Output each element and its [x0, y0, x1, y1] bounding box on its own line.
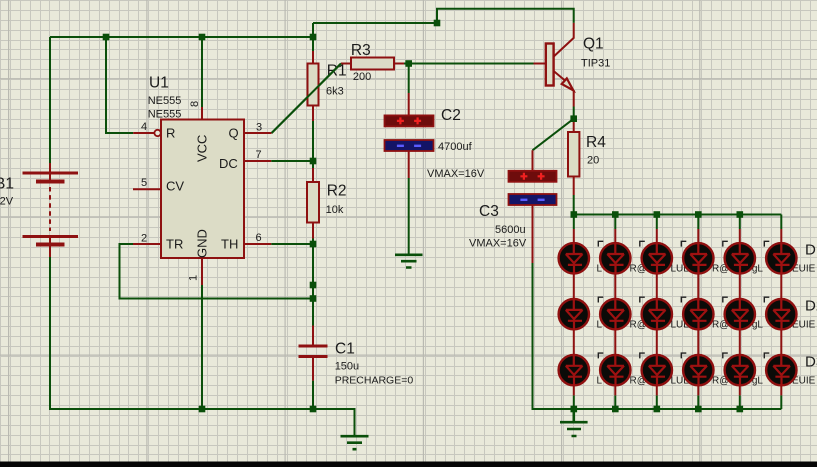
LED column lead	[614, 229, 616, 395]
svg-text:GND: GND	[195, 229, 210, 258]
pin 4	[133, 132, 154, 134]
label anchor mark	[764, 241, 769, 247]
svg-text:10k: 10k	[326, 204, 344, 216]
wire (crosses over R1)	[272, 64, 341, 134]
LED D4	[683, 243, 713, 274]
svg-text:4700uf: 4700uf	[438, 141, 473, 153]
junction	[570, 115, 577, 122]
LED D1	[559, 243, 589, 274]
wire	[49, 37, 51, 163]
svg-text:2: 2	[141, 233, 147, 245]
op-amp U1 (NE555 body)	[161, 120, 244, 259]
svg-text:R1: R1	[327, 63, 347, 80]
transistor Q1	[546, 44, 574, 91]
wire	[739, 395, 741, 409]
svg-text:3: 3	[256, 122, 262, 134]
svg-text:C1: C1	[335, 341, 355, 358]
svg-text:R3: R3	[351, 42, 371, 59]
junction	[737, 211, 744, 218]
svg-text:5600u: 5600u	[495, 224, 526, 236]
svg-text:8: 8	[189, 101, 201, 107]
junction	[103, 34, 110, 41]
wire	[614, 395, 616, 409]
LED D2	[600, 243, 630, 274]
transistor Q1 base lead	[534, 63, 546, 65]
wire	[697, 395, 699, 409]
junction	[310, 241, 317, 248]
resistor R1	[308, 64, 319, 106]
label anchor mark	[723, 297, 728, 303]
wire	[271, 160, 313, 162]
wire	[437, 9, 574, 23]
junction	[405, 60, 412, 67]
svg-text:200: 200	[353, 71, 371, 83]
svg-text:Q1: Q1	[583, 36, 604, 53]
svg-text:1: 1	[188, 275, 200, 281]
ground	[560, 409, 588, 436]
resistor R2	[307, 182, 319, 223]
label anchor mark	[764, 352, 769, 358]
LED column lead	[573, 229, 575, 395]
junction	[571, 211, 578, 218]
pin 4 bubble	[154, 130, 160, 136]
svg-text:C3: C3	[479, 203, 499, 220]
svg-text:12V: 12V	[0, 196, 14, 208]
svg-text:C2: C2	[441, 107, 461, 124]
svg-text:5: 5	[141, 177, 147, 189]
wire	[312, 23, 314, 51]
svg-text:D3: D3	[805, 353, 817, 370]
wire	[313, 22, 437, 24]
LED D9	[642, 299, 672, 330]
wire	[656, 395, 658, 409]
wire	[533, 119, 574, 151]
svg-text:TH: TH	[221, 237, 238, 252]
junction	[310, 158, 317, 165]
resistor R4 leads	[573, 121, 575, 196]
wire	[614, 215, 616, 230]
transistor Q1 emitter	[554, 71, 574, 107]
wire	[780, 215, 782, 230]
junction	[199, 406, 206, 413]
svg-text:TR: TR	[166, 237, 183, 252]
label anchor mark	[681, 352, 686, 358]
svg-text:CV: CV	[166, 179, 184, 194]
svg-text:R2: R2	[327, 183, 347, 200]
LED D11	[725, 299, 755, 330]
LED D3	[642, 243, 672, 274]
LED column lead	[697, 229, 699, 395]
wire	[574, 195, 782, 215]
ground	[341, 436, 369, 449]
label anchor mark	[640, 352, 645, 358]
junction	[612, 406, 619, 413]
capacitor C3	[509, 171, 557, 205]
LED column lead	[780, 229, 782, 395]
resistor R3	[351, 58, 394, 70]
junction	[654, 406, 661, 413]
wire	[312, 239, 314, 245]
wire	[50, 36, 313, 38]
svg-text:VCC: VCC	[195, 135, 210, 162]
svg-text:4: 4	[141, 121, 147, 133]
wire	[201, 285, 203, 409]
label anchor mark	[723, 352, 728, 358]
pin 5	[133, 188, 161, 190]
wire	[312, 161, 314, 168]
wire	[120, 244, 314, 299]
resistor R4	[568, 132, 579, 177]
LED column lead	[656, 229, 658, 395]
label anchor mark	[640, 241, 645, 247]
battery B1	[23, 172, 79, 247]
pin 3	[244, 132, 272, 134]
junction	[310, 295, 317, 302]
capacitor C1	[299, 345, 328, 359]
wire	[312, 121, 314, 161]
svg-text:6: 6	[256, 232, 262, 244]
LED D17	[725, 355, 755, 386]
pin 2	[133, 243, 161, 245]
window border bar	[0, 462, 817, 467]
LED D18	[766, 355, 796, 386]
wire	[271, 243, 313, 245]
label anchor mark	[598, 241, 603, 247]
svg-text:Q: Q	[229, 126, 239, 141]
junction	[695, 406, 702, 413]
wire	[780, 395, 782, 409]
junction	[199, 34, 206, 41]
svg-text:VMAX=16V: VMAX=16V	[427, 168, 485, 180]
resistor R2 leads	[312, 168, 314, 239]
capacitor C2 leads	[408, 93, 410, 178]
svg-text:PRECHARGE=0: PRECHARGE=0	[335, 375, 414, 387]
junction	[310, 282, 317, 289]
svg-text:20: 20	[587, 155, 599, 167]
capacitor C2	[385, 115, 434, 151]
label anchor mark	[640, 297, 645, 303]
wire	[404, 63, 534, 65]
svg-text:7: 7	[256, 149, 262, 161]
LED D15	[642, 355, 672, 386]
wire	[408, 178, 410, 254]
svg-text:NE555: NE555	[148, 109, 182, 121]
svg-text:6k3: 6k3	[326, 86, 344, 98]
wire	[533, 263, 782, 409]
resistor R3 leads	[341, 63, 404, 65]
LED D10	[683, 299, 713, 330]
resistor R1 leads	[312, 51, 314, 121]
label anchor mark	[723, 241, 728, 247]
LED D13	[559, 355, 589, 386]
junction	[571, 406, 578, 413]
pin 6	[244, 243, 271, 245]
label anchor mark	[598, 297, 603, 303]
pin 1	[201, 258, 203, 285]
junction	[737, 406, 744, 413]
LED D7	[559, 299, 589, 330]
label anchor mark	[598, 352, 603, 358]
wire	[408, 64, 410, 94]
LED D16	[683, 355, 713, 386]
junction	[434, 20, 441, 27]
LED D14	[600, 355, 630, 386]
pin 7	[244, 160, 271, 162]
LED D6	[766, 243, 796, 274]
capacitor C1 leads	[312, 326, 314, 381]
junction	[654, 211, 661, 218]
wire	[656, 215, 658, 230]
svg-text:DC: DC	[219, 156, 238, 171]
junction	[310, 34, 317, 41]
svg-text:VMAX=16V: VMAX=16V	[469, 238, 527, 250]
label anchor mark	[764, 297, 769, 303]
junction	[612, 211, 619, 218]
wire	[312, 244, 314, 326]
wire	[50, 257, 355, 435]
LED D8	[600, 299, 630, 330]
wire	[312, 381, 314, 409]
LED column lead	[739, 229, 741, 395]
wire	[106, 37, 133, 133]
label anchor mark	[681, 297, 686, 303]
capacitor C3 leads	[532, 150, 534, 263]
svg-text:R4: R4	[586, 134, 606, 151]
svg-text:U1: U1	[149, 75, 169, 92]
battery pin	[49, 163, 51, 257]
wire	[573, 395, 575, 409]
svg-text:D2: D2	[805, 297, 817, 314]
LED D5	[725, 243, 755, 274]
wire	[573, 107, 575, 121]
svg-text:TIP31: TIP31	[581, 58, 610, 70]
transistor Q1 collector	[554, 23, 574, 57]
ground	[395, 255, 423, 268]
wire	[697, 215, 699, 230]
LED D12	[766, 299, 796, 330]
svg-text:B1: B1	[0, 176, 14, 193]
pin 8	[201, 107, 203, 120]
wire	[573, 215, 575, 230]
svg-text:NE555: NE555	[148, 95, 182, 107]
wire	[201, 37, 203, 107]
svg-text:R: R	[166, 126, 175, 141]
svg-text:150u: 150u	[335, 361, 359, 373]
wire	[272, 64, 341, 134]
wire	[739, 215, 741, 230]
junction	[310, 406, 317, 413]
junction	[695, 211, 702, 218]
label anchor mark	[681, 241, 686, 247]
svg-text:D1: D1	[805, 242, 817, 259]
